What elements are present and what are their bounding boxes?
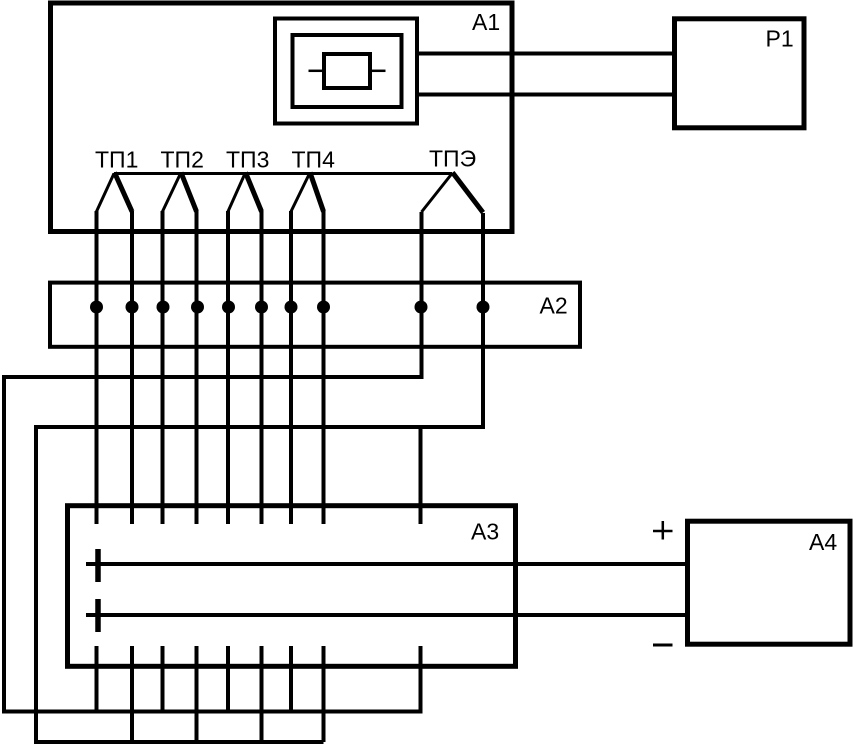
wire TP3 left <box>226 211 230 524</box>
bottom stub TP3 right <box>260 646 264 742</box>
block A2 (switch) <box>50 283 580 347</box>
wire TP4 right <box>322 211 326 524</box>
bottom stub TP2 left <box>161 646 165 711</box>
bath line 1 (to A4 plus) <box>86 562 687 566</box>
thermocouple TPE (reference) <box>422 173 484 213</box>
thermocouple TP1 <box>97 173 133 212</box>
bottom stub TP2 right <box>195 646 199 742</box>
bottom stub TP1 right <box>130 646 134 742</box>
svg-text:ТП2: ТП2 <box>161 147 204 173</box>
bottom bus 2 <box>34 740 324 744</box>
wire branch from TPE-right bus down into A3 (immersed end) <box>419 427 423 524</box>
thermostat icon component rect <box>324 54 370 88</box>
thermostat icon middle rect <box>293 35 402 107</box>
bath line 2 terminal tick <box>95 599 101 632</box>
thermostat icon right lead <box>370 70 386 73</box>
junction dots in A2 <box>90 301 490 314</box>
wire TPE right: down from junction, left along y=427, down to bottom bus 2 <box>36 213 483 742</box>
svg-text:A4: A4 <box>809 529 837 555</box>
bottom stub TP4 right <box>322 646 326 742</box>
thermocouple TP2 <box>163 173 197 212</box>
thermocouple TP4 <box>291 173 324 212</box>
svg-text:ТП1: ТП1 <box>95 147 138 173</box>
bottom bus 1 with stub up into A3 <box>2 646 421 712</box>
bath line 1 terminal tick <box>95 549 101 582</box>
wire A1 to P1 upper <box>419 52 676 56</box>
apex bus wire connecting thermocouple junctions <box>114 172 452 175</box>
thermostat icon outer rect <box>275 19 417 124</box>
wire TP3 right <box>260 211 264 524</box>
wire TP1 right <box>130 211 134 524</box>
bath line 2 (to A4 minus) <box>86 613 687 617</box>
block A4 (voltmeter) <box>688 521 851 644</box>
wire TP4 left <box>289 211 293 524</box>
svg-text:ТП3: ТП3 <box>226 147 269 173</box>
block A1 (furnace) <box>51 3 513 232</box>
wire TPE left: down from junction, left along y=377, down left side <box>4 212 422 712</box>
wire TP1 left (down through A2 into A3) <box>95 211 99 524</box>
wire TP2 left <box>161 211 165 524</box>
svg-text:P1: P1 <box>766 26 794 52</box>
svg-text:ТП4: ТП4 <box>292 147 336 173</box>
minus sign <box>653 644 673 647</box>
block P1 (regulator) <box>675 19 805 128</box>
bottom stub TP3 left <box>226 646 230 711</box>
wire A1 to P1 lower <box>419 93 676 97</box>
plus sign <box>653 521 673 540</box>
svg-text:A1: A1 <box>472 9 500 35</box>
block A3 (thermostat) <box>68 506 516 667</box>
bottom stub TP4 left <box>289 646 293 711</box>
wire TP2 right <box>195 211 199 524</box>
bottom stub TP1 left <box>95 646 99 711</box>
thermostat icon left lead <box>309 70 325 73</box>
svg-text:A2: A2 <box>540 293 568 319</box>
svg-text:A3: A3 <box>471 519 499 545</box>
thermocouple TP3 <box>228 173 262 212</box>
svg-text:ТПЭ: ТПЭ <box>429 146 476 172</box>
